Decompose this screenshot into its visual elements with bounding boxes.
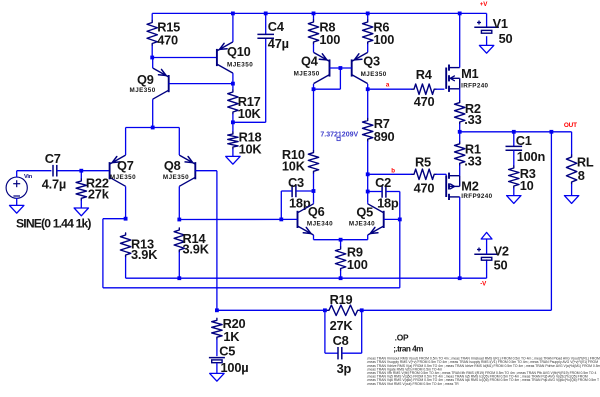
resistor R4 xyxy=(412,84,436,94)
svg-text:IRFP9240: IRFP9240 xyxy=(461,193,492,200)
svg-text:IRFP240: IRFP240 xyxy=(461,82,488,89)
svg-text:.meas TRAN Vtot RMS V(out) FRO: .meas TRAN Vtot RMS V(out) FROM 0.5m TO … xyxy=(367,382,460,386)
voltage source V2 xyxy=(474,248,499,261)
label M2 model IRFP9240 xyxy=(461,193,492,200)
svg-text:47µ: 47µ xyxy=(268,36,289,51)
wire RL gnd lead xyxy=(571,184,573,196)
wire R18 gnd lead xyxy=(232,149,234,156)
svg-text:3.9K: 3.9K xyxy=(183,242,210,257)
wire C3 right link xyxy=(296,190,314,192)
wire Q8 collector down xyxy=(178,186,180,219)
label Q7 xyxy=(117,158,134,173)
label RL xyxy=(577,154,594,169)
resistor R6 xyxy=(363,20,373,44)
wire R8 top lead xyxy=(313,13,315,20)
ground below R22 xyxy=(74,208,88,216)
svg-text:Q10: Q10 xyxy=(227,44,251,59)
node junction Q5 base xyxy=(398,218,402,222)
svg-text:8: 8 xyxy=(578,168,585,183)
svg-text:Q6: Q6 xyxy=(308,204,325,219)
svg-text:Q3: Q3 xyxy=(363,54,380,69)
wire Q8 base lead xyxy=(195,171,217,311)
wire R15 bottom lead xyxy=(151,46,153,58)
label Q6 model MJE340 xyxy=(307,221,333,228)
label R4 xyxy=(416,67,433,82)
label R8 xyxy=(319,19,335,34)
svg-text:Q7: Q7 xyxy=(117,158,134,173)
label R17 value 10K xyxy=(238,106,262,121)
transistor Q10 xyxy=(217,42,233,73)
wire Q4/Q3 base tie xyxy=(330,67,352,69)
label R20 value 1K xyxy=(223,329,240,344)
node a label xyxy=(386,82,390,89)
wire C7 to R22 xyxy=(57,170,82,172)
node a junction xyxy=(366,87,370,91)
svg-text:C7: C7 xyxy=(45,151,61,166)
label C2 value 18p xyxy=(377,196,399,211)
label R5 xyxy=(415,154,431,169)
mosfet M2 IRFP9240 xyxy=(446,173,460,200)
transistor Q9 xyxy=(153,68,169,99)
node junction tail xyxy=(151,126,155,130)
wire R9 bottom lead xyxy=(340,271,342,279)
svg-text:Q9: Q9 xyxy=(137,72,154,87)
svg-text:.33: .33 xyxy=(464,154,481,169)
label Q5 model MJE340 xyxy=(349,221,375,228)
wire C1 to R3 xyxy=(513,150,515,166)
wire Q8c to Q6 base xyxy=(179,218,297,220)
svg-text:1K: 1K xyxy=(223,329,240,344)
wire Q10 emitter up xyxy=(232,13,234,42)
mosfet M1 IRFP240 xyxy=(446,65,460,92)
label M1 model IRFP240 xyxy=(461,82,488,89)
wire R22 top lead xyxy=(80,171,82,179)
wire Q3 collector xyxy=(367,84,369,89)
svg-text:C1: C1 xyxy=(516,133,532,148)
capacitor C1 xyxy=(506,146,523,150)
svg-text:R5: R5 xyxy=(415,154,431,169)
resistor R13 xyxy=(120,233,130,257)
wire V2 top lead xyxy=(486,239,488,254)
ground below C5 xyxy=(210,373,224,381)
wire Q7 base wire xyxy=(81,170,109,172)
capacitor C4 xyxy=(257,34,274,38)
svg-text:Q5: Q5 xyxy=(356,204,373,219)
label SINE directive xyxy=(16,216,91,230)
label R6 xyxy=(373,19,389,34)
svg-text:;.tran 4m: ;.tran 4m xyxy=(393,344,423,353)
wire V2 bottom lead xyxy=(486,259,488,278)
wire R10 top lead xyxy=(313,89,315,150)
node junction rail/R8 xyxy=(312,12,316,16)
directive .OP xyxy=(395,332,409,342)
label R14 value 3.9K xyxy=(183,242,210,257)
wire R7 top lead xyxy=(367,89,369,118)
node junction -Vrail/M2 xyxy=(458,276,462,280)
resistor R5 xyxy=(412,169,436,179)
label V2 value 50 xyxy=(494,257,508,272)
label Q3 xyxy=(363,54,380,69)
wire R1 top lead xyxy=(459,132,461,142)
node Vin label xyxy=(24,174,33,180)
capacitor C3 xyxy=(292,185,296,197)
wire Q5 collector up xyxy=(367,203,369,204)
label C2 xyxy=(375,175,391,190)
wire R6 top lead xyxy=(367,13,369,20)
label Q8 model MJE350 xyxy=(163,174,189,181)
resistor R2 xyxy=(455,101,465,124)
node junction out/C1 xyxy=(512,130,516,134)
wire C4 bottom link xyxy=(233,38,266,122)
svg-text:10K: 10K xyxy=(239,142,263,157)
node OUT label xyxy=(564,122,577,129)
wire -V rail xyxy=(126,277,487,279)
wire C8 right bracket xyxy=(342,310,362,353)
svg-text:4.7µ: 4.7µ xyxy=(42,176,66,191)
label R9 value 100 xyxy=(347,257,368,272)
label R19 value 27K xyxy=(330,318,354,333)
svg-text:50: 50 xyxy=(499,31,513,46)
label R10 value 10K xyxy=(282,158,306,173)
resistor R15 xyxy=(147,21,157,46)
node junction out/R2R1 xyxy=(458,130,462,134)
node b label xyxy=(391,167,395,174)
node b junction xyxy=(366,172,370,176)
transistor Q4 xyxy=(314,52,330,83)
wire R19 right to fb xyxy=(360,309,552,311)
label Q9 xyxy=(137,72,154,87)
ground below V1 xyxy=(479,45,493,53)
svg-text:-V: -V xyxy=(480,281,487,288)
svg-text:b: b xyxy=(391,167,395,174)
svg-text:10K: 10K xyxy=(238,106,262,121)
label R8 value 100 xyxy=(319,32,340,47)
resistor R9 xyxy=(335,247,345,271)
label R13 xyxy=(131,236,154,251)
label RL value 8 xyxy=(578,168,585,183)
svg-text:a: a xyxy=(386,82,390,89)
svg-text:C2: C2 xyxy=(375,175,391,190)
label C3 value 18p xyxy=(289,196,311,211)
svg-text:M2: M2 xyxy=(461,178,478,193)
svg-text:3p: 3p xyxy=(337,361,352,376)
svg-text:MJE350: MJE350 xyxy=(163,174,189,181)
node junction emitters xyxy=(339,238,343,242)
ground below R18 xyxy=(226,156,240,164)
svg-text:470: 470 xyxy=(414,181,435,196)
capacitor C5 (polarized) xyxy=(209,358,225,363)
resistor R14 xyxy=(174,228,184,252)
node junction rail/M1 xyxy=(458,12,462,16)
wire R6 to Q3 xyxy=(367,44,369,52)
wire C4 top lead xyxy=(265,13,267,34)
node junction rail/R6 xyxy=(366,12,370,16)
label Q7 model MJE350 xyxy=(110,174,136,181)
wire C8 left bracket xyxy=(325,310,338,353)
svg-text:Q8: Q8 xyxy=(164,158,181,173)
label R7 xyxy=(374,116,390,131)
svg-text:MJE350: MJE350 xyxy=(110,174,136,181)
label Q4 model MJE350 xyxy=(294,71,320,78)
svg-text:MJE350: MJE350 xyxy=(130,87,156,94)
resistor R7 xyxy=(363,119,373,142)
label R15 value 470 xyxy=(157,33,178,48)
transistor Q7 xyxy=(110,155,126,186)
svg-text:MJE340: MJE340 xyxy=(349,221,375,228)
wire tail xyxy=(126,128,180,156)
node junction R20 xyxy=(215,308,219,312)
wire Vin top xyxy=(17,171,52,178)
wire R9 top lead xyxy=(340,240,342,247)
wire R3 gnd lead xyxy=(513,188,515,196)
svg-text:C3: C3 xyxy=(288,175,304,190)
svg-text:890: 890 xyxy=(374,129,395,144)
transistor Q3 xyxy=(352,52,368,83)
resistor R20 xyxy=(212,318,222,339)
resistor R18 xyxy=(228,132,238,149)
wire C2 left link xyxy=(368,191,382,193)
label R2 xyxy=(465,101,481,116)
svg-text:.33: .33 xyxy=(464,112,481,127)
wire R7 bottom xyxy=(367,141,369,203)
node junction R17/R18/C4 xyxy=(231,120,235,124)
wire R1 bottom xyxy=(459,165,461,175)
wire R14 bottom xyxy=(178,252,180,278)
ground below RL xyxy=(564,196,578,204)
node bias marker xyxy=(337,137,340,140)
wire a to R4 xyxy=(368,88,412,90)
label R18 value 10K xyxy=(239,142,263,157)
label R17 xyxy=(238,94,261,109)
wire fb mid row xyxy=(217,309,327,311)
svg-text:C5: C5 xyxy=(219,343,235,358)
svg-text:C8: C8 xyxy=(333,333,349,348)
label R6 value 100 xyxy=(373,32,394,47)
wire R8 to Q4 xyxy=(313,44,315,52)
label Q4 xyxy=(301,54,319,69)
wire R4 to M1 gate xyxy=(436,88,444,90)
svg-text:C4: C4 xyxy=(268,19,285,34)
node junction -Vrail/R9 xyxy=(339,276,343,280)
svg-text:.OP: .OP xyxy=(395,332,409,342)
label R22 xyxy=(86,176,109,191)
resistor R22 xyxy=(76,179,86,200)
svg-text:470: 470 xyxy=(157,33,178,48)
node -V label xyxy=(480,281,487,288)
node junction Q10c/Q9b xyxy=(231,82,235,86)
wire Q6 emitter xyxy=(314,235,341,240)
wire R2 bottom xyxy=(459,124,461,132)
label R1 xyxy=(465,141,481,156)
label M2 xyxy=(461,178,478,193)
transistor Q8 xyxy=(179,155,195,186)
transistor Q6 xyxy=(298,204,314,235)
wire R13 bottom xyxy=(125,257,127,278)
node junction Q8c/R14 xyxy=(177,218,181,222)
svg-text:Q4: Q4 xyxy=(301,54,319,69)
label Q5 xyxy=(356,204,373,219)
node junction bases xyxy=(339,66,343,70)
voltage source Vin xyxy=(6,177,27,198)
wire C5 gnd lead xyxy=(216,363,218,374)
label C7 xyxy=(45,151,61,166)
wire R15 top lead xyxy=(151,13,153,20)
svg-text:+V: +V xyxy=(480,1,488,8)
text tiny spice directives block xyxy=(367,357,600,386)
svg-text:100: 100 xyxy=(373,32,394,47)
capacitor C2 xyxy=(382,185,386,197)
label R18 xyxy=(239,129,262,144)
node junction C3 right xyxy=(312,189,316,193)
svg-text:10: 10 xyxy=(520,178,534,193)
label Q3 model MJE350 xyxy=(361,71,387,78)
label C1 value 100n xyxy=(517,149,546,164)
wire Q4 collector xyxy=(313,84,315,89)
label C8 xyxy=(333,333,349,348)
voltage source V1 xyxy=(474,21,499,46)
svg-text:27K: 27K xyxy=(330,318,354,333)
node junction C2 left xyxy=(366,190,370,194)
wire RL drop xyxy=(571,132,573,155)
svg-text:M1: M1 xyxy=(461,66,478,81)
ground below R3 xyxy=(507,196,521,204)
wire Q10 collector down xyxy=(232,73,234,90)
label Q8 xyxy=(164,158,181,173)
svg-text:MJE350: MJE350 xyxy=(361,71,387,78)
directive tran xyxy=(393,344,423,353)
wire Q9 emitter up xyxy=(152,58,154,69)
label C3 xyxy=(288,175,304,190)
label C1 xyxy=(516,133,532,148)
wire R5 to M2 gate xyxy=(436,174,446,176)
label Q9 model MJE350 xyxy=(130,87,156,94)
wire Vin bottom xyxy=(16,198,18,205)
node junction C3 bracket xyxy=(279,218,283,222)
svg-text:MJE340: MJE340 xyxy=(307,221,333,228)
node junction R19 right xyxy=(360,308,364,312)
label R9 xyxy=(347,245,363,260)
label R5 value 470 xyxy=(414,181,435,196)
wire feedback down xyxy=(550,132,552,310)
resistor R10 xyxy=(308,151,318,174)
svg-text:100: 100 xyxy=(319,32,340,47)
ground below Vin xyxy=(10,205,24,213)
svg-text:100µ: 100µ xyxy=(221,360,249,375)
wire R20 to C5 xyxy=(216,339,218,356)
svg-text:MJE350: MJE350 xyxy=(227,62,253,69)
svg-text:R4: R4 xyxy=(416,67,433,82)
wire Q7c to left xyxy=(103,219,126,288)
wire Q5 emitter xyxy=(341,235,368,240)
node junction Q7c/R13 xyxy=(124,217,128,221)
wire M1 drain up xyxy=(459,13,461,67)
wire Q9 base lead xyxy=(169,83,233,85)
svg-text:OUT: OUT xyxy=(564,122,577,129)
wire C3 left bracket xyxy=(281,191,292,219)
svg-text:SINE(0 1.44 1k): SINE(0 1.44 1k) xyxy=(16,216,91,230)
wire Q7 collector down xyxy=(125,186,127,218)
svg-text:470: 470 xyxy=(414,94,435,109)
label R14 xyxy=(183,231,207,246)
ground above V2 (inverted) xyxy=(481,232,492,239)
node junction R19 left xyxy=(323,308,327,312)
node +V label xyxy=(480,1,488,8)
wire Q9 collector down xyxy=(152,99,154,127)
wire top +V rail xyxy=(152,12,486,14)
resistor R8 xyxy=(308,20,318,44)
label R4 value 470 xyxy=(414,94,435,109)
label C8 value 3p xyxy=(337,361,352,376)
wire b to R5 xyxy=(368,173,412,175)
wire M2 drain down xyxy=(459,197,461,278)
label R20 xyxy=(223,316,246,331)
label V1 xyxy=(493,16,508,31)
svg-text:100: 100 xyxy=(347,257,368,272)
node bias text 7.3721209V xyxy=(320,131,358,138)
wire R17 bottom xyxy=(232,114,234,132)
wire Q6 collector up xyxy=(313,203,315,204)
node junction C7/R22/Q7b xyxy=(79,169,83,173)
transistor Q5 xyxy=(368,204,384,235)
svg-text:V2: V2 xyxy=(494,243,509,258)
wire Q5 base lead xyxy=(384,218,400,220)
resistor R3 xyxy=(509,166,519,188)
svg-text:27k: 27k xyxy=(88,187,110,202)
label R2 value .33 xyxy=(464,112,481,127)
label R7 value 890 xyxy=(374,129,395,144)
node junction Q4c xyxy=(312,87,316,91)
label R1 value .33 xyxy=(464,154,481,169)
capacitor C7 xyxy=(53,165,57,177)
node junction R15/Q10/Q9 xyxy=(150,56,154,60)
wire Q10 base xyxy=(152,57,217,59)
node junction -Vrail/R14 xyxy=(177,276,181,280)
svg-text:50: 50 xyxy=(494,257,508,272)
label Q10 model MJE350 xyxy=(227,62,253,69)
label R3 value 10 xyxy=(520,178,534,193)
node junction rail/C4 xyxy=(264,12,268,16)
svg-text:Vin: Vin xyxy=(24,174,33,180)
svg-text:10K: 10K xyxy=(282,158,306,173)
resistor R17 xyxy=(228,90,238,114)
svg-text:18p: 18p xyxy=(377,196,399,211)
label R10 xyxy=(282,147,305,162)
label C7 value 4.7u xyxy=(42,176,66,191)
label V2 xyxy=(494,243,509,258)
label C5 xyxy=(219,343,235,358)
wire M1 source down xyxy=(459,89,461,101)
node junction out/fb xyxy=(550,130,554,134)
label R13 value 3.9K xyxy=(131,247,158,262)
wire OUT xyxy=(460,131,572,133)
wire R22 gnd lead xyxy=(80,200,82,208)
wire V1 top lead xyxy=(486,13,488,27)
svg-text:100n: 100n xyxy=(517,149,546,164)
wire C2 right bracket xyxy=(386,192,400,220)
svg-text:R19: R19 xyxy=(330,292,353,307)
resistor R1 xyxy=(455,142,465,166)
wire C1 top lead xyxy=(513,132,515,147)
svg-text:V1: V1 xyxy=(493,16,508,31)
label C5 value 100u xyxy=(221,360,249,375)
label R19 xyxy=(330,292,353,307)
wire R10 bottom xyxy=(313,173,315,203)
svg-text:MJE350: MJE350 xyxy=(294,71,320,78)
wire base drop xyxy=(314,68,341,89)
label R22 value 27k xyxy=(88,187,110,202)
resistor RL xyxy=(566,155,576,184)
capacitor C8 xyxy=(338,347,342,359)
